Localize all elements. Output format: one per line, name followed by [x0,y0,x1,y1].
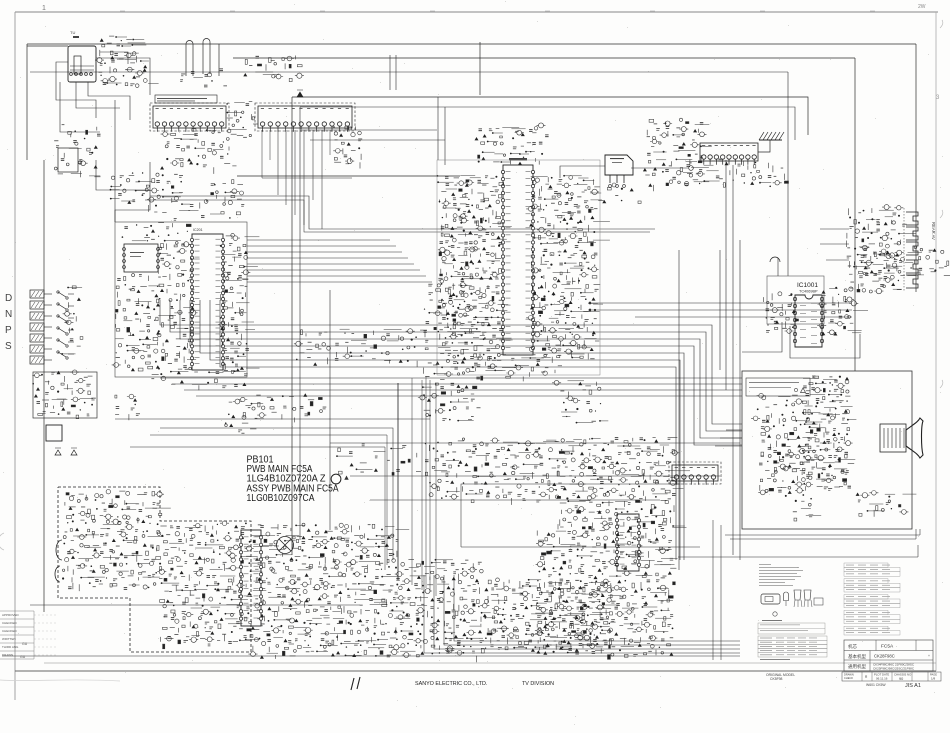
connector CN102 [150,103,229,132]
cluster CRT bottom small [856,491,917,517]
wire bottom long [2,605,936,663]
svg-text:TV DIVISION: TV DIVISION [522,681,554,687]
bridge rectifier X [277,537,294,554]
cluster CRT drive middle [798,376,857,491]
TB01 vertical column [239,530,262,626]
wire bus bottom nested [424,575,740,653]
scan artifact left edge [0,533,120,681]
cluster left of IC201 [156,242,200,370]
svg-text:DRAWN: DRAWN [844,673,854,677]
cluster fbt area dense [480,578,621,654]
small parts below tuner [54,124,100,177]
wire center verticals [330,290,436,596]
svg-text:CHECKED: CHECKED [2,629,18,633]
transistor cluster left-mid [424,278,480,337]
wire bus top horizontals [27,44,916,72]
jumper box J101 [58,148,78,172]
svg-text:IC201: IC201 [193,228,203,232]
CRT socket [880,418,923,458]
svg-text:DRAWN: DRAWN [2,653,13,657]
package drawings [761,590,823,607]
ground symbols below relay [55,448,77,455]
svg-text:REAR AV: REAR AV [931,222,936,240]
chassis ground hatch [758,132,784,152]
wire fanout below CN103 [262,130,352,229]
svg-text:通用机型: 通用机型 [848,663,866,670]
title block [844,640,933,671]
wire mid horizontals [115,130,740,500]
small cluster power-on [115,394,140,420]
cluster above subIC [122,224,155,241]
cluster audio top-right [643,118,712,191]
vertical IC601 [615,514,640,571]
cluster sparse left band [336,443,428,476]
wire bus mid-left bundle [160,300,742,560]
cluster right of IC501 [526,175,610,363]
svg-text:W601 CK5W: W601 CK5W [866,683,886,687]
rear AV jacks [904,208,918,292]
wire corner bends left-center [130,428,393,570]
cluster below IC201 [151,368,259,390]
small table A [758,623,825,634]
resistor stack right of CN103 [333,126,362,168]
cluster audio-out above rearAV [856,245,950,275]
cluster left of IC1001 [763,292,798,334]
cluster above IC501 [475,123,549,165]
cluster h-lines [238,393,326,422]
speaker jacks [55,540,62,582]
svg-text:90: 90 [899,677,903,681]
wire left verticals [27,44,115,612]
connector CN103 [255,103,355,132]
wire IC301 links [560,166,693,178]
svg-text:1/8: 1/8 [931,677,936,681]
PB101 mark triangle [344,476,348,480]
IC201 block outline [115,222,247,377]
wire bus to CRT board [160,378,742,396]
IC301 regulator [605,155,633,187]
cluster below IC501 box [552,380,608,423]
handwritten mark [351,677,360,690]
cluster rear AV parts [846,205,916,294]
DNPS board designator text [5,293,12,352]
tuner surrounding wires [27,46,150,132]
cluster heat sink area [395,559,491,662]
svg-text:D: D [5,293,12,304]
SANYO ELECTRIC text [415,681,487,687]
svg-text:CHECK: CHECK [844,676,853,680]
connector CN601 [700,143,758,165]
REAR AV label [931,222,936,240]
svg-text:1: 1 [42,5,46,12]
cluster audio amp dense [62,490,171,592]
TV DIVISION text [522,681,554,687]
wire IC1001 loop below [742,322,860,358]
wire IC201 right fanout [145,176,655,282]
CRT board outline [742,371,912,529]
cluster power right [557,437,690,529]
cluster CRT left parts [758,416,825,497]
cluster right of IC201 [218,233,260,376]
title block bottom row [842,672,941,681]
wire yoke box [461,484,700,547]
wires into CRT board [715,430,742,446]
cluster below CN601 [684,159,759,187]
table B bottom [758,636,827,660]
CRT warning text box [746,378,810,396]
wire IC1001 top entry [770,257,780,276]
cluster above IC block [149,200,245,221]
PB101 mark circle [331,474,341,484]
svg-text:+: + [928,654,930,658]
svg-text:机芯: 机芯 [848,643,857,650]
svg-text:06.11.16: 06.11.16 [876,677,888,681]
sub-IC X201 [123,244,160,272]
svg-text:1LG0B10Z097CA: 1LG0B10Z097CA [247,493,315,504]
IC501 jungle IC [501,158,534,355]
small cluster deg relay [225,399,264,434]
tuner trimmer capacitors [95,36,146,63]
remote sensor box [32,370,97,419]
IC201 video chroma IC [190,228,224,370]
JIS A1 text [866,683,921,689]
svg-text:N: N [5,309,12,320]
cluster AGC parts [206,180,243,203]
wire tuner to IF [96,160,150,222]
wire box around IC501 [437,160,600,375]
ground symbol above CN103 [297,90,303,97]
svg-text:CK5F98: CK5F98 [770,677,783,681]
connector plugs left column [30,290,52,364]
note mark [762,612,782,621]
cluster below IC301 [590,183,641,203]
cluster CRT bottom left [793,498,821,521]
wire right-mid verticals [679,160,740,570]
transistor list tables [844,563,900,635]
cluster top of IC201 [146,223,191,248]
IC1001 TC4069BP [793,282,823,347]
svg-text:P: P [5,325,12,336]
wire CRT bottom loops [678,520,920,660]
cluster audio right part [157,521,263,649]
PB101 title text [247,455,339,505]
svg-text:THIRD ANG: THIRD ANG [2,645,19,649]
cluster keyboard resistors [61,286,83,355]
note box label [155,95,217,103]
svg-text:GU: GU [22,642,28,646]
flyback connector [669,462,721,485]
capacitor cluster C106 area [243,56,304,82]
svg-text:2W: 2W [918,4,926,10]
frame tick labels [42,4,943,388]
svg-text:WRITTEN: WRITTEN [2,637,16,641]
cluster below IC501 [470,354,563,381]
cluster right of IC1001 [817,287,868,336]
IC1001 enclosure [767,276,824,324]
svg-text:SANYO ELECTRIC CO., LTD.: SANYO ELECTRIC CO., LTD. [415,681,487,687]
wire rearAV entries [820,229,849,260]
svg-text:GU: GU [20,655,26,659]
svg-text:TC4069BP: TC4069BP [799,290,818,294]
notes text block [759,564,803,586]
approval stamps table [0,611,58,659]
cluster center below block [418,365,481,422]
coil jumpers top-mid [180,39,227,87]
spark gaps CRT [773,450,816,475]
relay box [46,425,62,441]
original model text [766,673,795,681]
wire loop center block [292,42,808,555]
wire audio buses to rearAV [589,302,852,317]
cluster IF area [110,172,183,204]
cluster far-left of IC201 [112,274,164,372]
svg-text:CHASSIS NO: CHASSIS NO [894,673,912,677]
wire bus right verticals [788,44,916,371]
tuner TU101 [68,30,96,82]
svg-text:JIS A1: JIS A1 [905,683,921,689]
cluster mid-bottom upper [429,438,575,505]
cluster CRT upper [751,393,806,420]
svg-text:CK25F98C/98C/25SC/21F98C: CK25F98C/98C/25SC/21F98C [873,667,915,671]
parts between connectors [226,102,257,138]
svg-text:APPROVED: APPROVED [2,613,20,617]
audio PWB dashed boundary [58,487,251,652]
svg-text:FC5A: FC5A [881,644,894,650]
cluster horiz drive [294,329,432,367]
resistor cluster right of tuner [99,59,159,87]
cluster below CN102 [160,129,236,174]
degauss coil symbols [748,162,789,187]
svg-text:CK28F98C: CK28F98C [874,654,895,659]
svg-text:CHECKED: CHECKED [2,621,18,625]
svg-text:基本机型: 基本机型 [848,653,866,660]
cluster vert deflection [249,523,411,659]
svg-text:S: S [5,341,12,352]
svg-text:IC1001: IC1001 [797,282,818,289]
svg-text:TU: TU [70,30,75,35]
switch column S001 [57,291,74,359]
cluster left of IC501 [436,175,513,366]
cluster below IC601 [535,525,686,660]
